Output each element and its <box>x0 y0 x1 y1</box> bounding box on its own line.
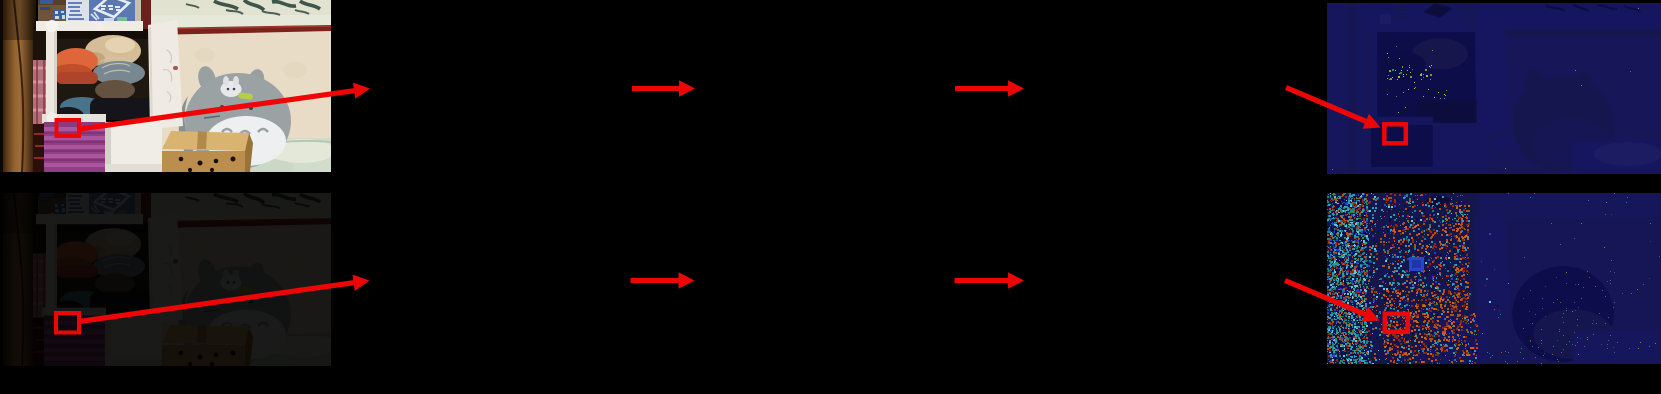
low-light noisy photo <box>0 193 331 366</box>
clothes block <box>1377 32 1484 121</box>
arrow between low-light crops 2-3 <box>955 278 1009 283</box>
red roi box on low-light photo <box>56 313 79 333</box>
wood strip <box>1327 3 1363 174</box>
arrow from low-light photo roi to crop 1 <box>79 283 354 322</box>
clean reference photo <box>0 0 331 172</box>
red roi box on noisy error map <box>1385 314 1408 332</box>
arrow into clean error map roi <box>1286 88 1366 122</box>
door / panel <box>1475 213 1510 322</box>
spc diamond dark <box>1423 194 1453 209</box>
arrow into noisy error map roi <box>1285 281 1365 315</box>
red roi box on clean error map <box>1384 124 1406 143</box>
red roi box on clean photo <box>57 120 80 136</box>
shelf frame <box>1363 24 1470 34</box>
totoro silhouette <box>1512 266 1614 362</box>
spc box area <box>1365 3 1462 26</box>
artwork band <box>1478 193 1661 220</box>
totoro <box>1512 76 1614 172</box>
door <box>1475 23 1510 132</box>
arrow between low-light crops 1-2 <box>631 278 679 283</box>
clean-result error heatmap <box>1327 3 1661 174</box>
box <box>1489 134 1576 154</box>
bed <box>1573 141 1661 175</box>
bright blue patch <box>1409 257 1424 271</box>
arrow from clean photo roi to crop 1 <box>80 91 354 129</box>
arrow between clean crops 1-2 <box>632 86 679 91</box>
shelf bottom bar <box>1363 167 1433 174</box>
noisy-result error heatmap <box>1327 193 1661 364</box>
blanket <box>1371 125 1433 175</box>
bed <box>1573 331 1661 365</box>
artwork band <box>1478 3 1661 30</box>
mid bar / panel <box>1369 117 1433 126</box>
arrow between clean crops 2-3 <box>955 86 1008 91</box>
